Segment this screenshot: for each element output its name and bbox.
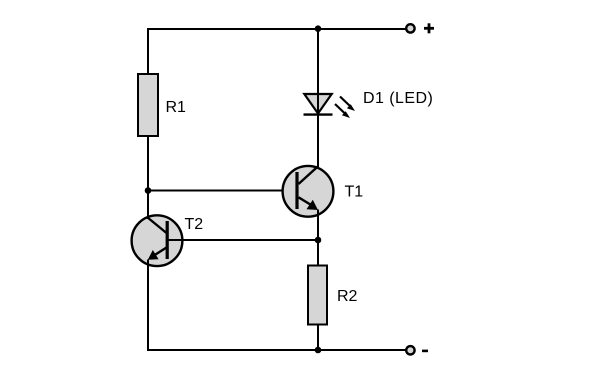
node junction T2 base / right branch [315,237,322,244]
transistor T2 body circle [132,215,183,266]
transistor T1 base bar [295,172,298,209]
svg-text:R2: R2 [337,288,358,305]
terminal positive circle [406,24,414,32]
diode D1 LED emission arrow 1 [340,97,355,112]
terminal negative circle [406,346,414,354]
resistor R1 [138,74,158,136]
transistor T2 emitter arrowhead [148,250,159,260]
transistor T1 collector lead [299,167,318,185]
wire bottom rail [147,349,406,351]
diode D1 LED emission arrow 2 [335,104,350,118]
svg-text:T2: T2 [185,216,204,233]
terminal positive plus sign [424,23,434,33]
diode D1 LED triangle [304,94,331,114]
wire left rail upper: top rail to T2 collector [147,28,149,219]
diode D1 LED cathode bar [304,113,333,115]
wire right branch: R2 bottom to bottom rail [317,325,319,351]
transistor T2 emitter lead [154,248,167,256]
node junction left rail / T1 base [145,187,152,194]
svg-text:T1: T1 [345,184,364,201]
resistor R2 [308,266,327,325]
node junction R2 / bottom rail [315,347,322,354]
svg-text:R1: R1 [166,99,187,116]
terminal negative minus sign [422,350,428,353]
wire top rail [147,28,406,30]
node junction top rail / LED branch [315,25,322,32]
wire right branch: T1 emitter to R2 top [317,210,319,267]
wire T1 base from left rail [148,190,283,192]
wire right branch: top rail through LED to T1 collector [317,28,319,167]
transistor T2 collector lead [148,218,166,233]
transistor T1 emitter arrowhead [307,200,319,210]
wire left rail lower: T2 emitter to bottom rail [147,260,149,352]
svg-text:D1 (LED): D1 (LED) [363,90,433,107]
transistor T1 body circle [283,166,334,217]
wire T2 base to right branch [167,239,318,241]
transistor T1 emitter lead [299,197,313,205]
transistor T2 base bar [166,221,169,259]
